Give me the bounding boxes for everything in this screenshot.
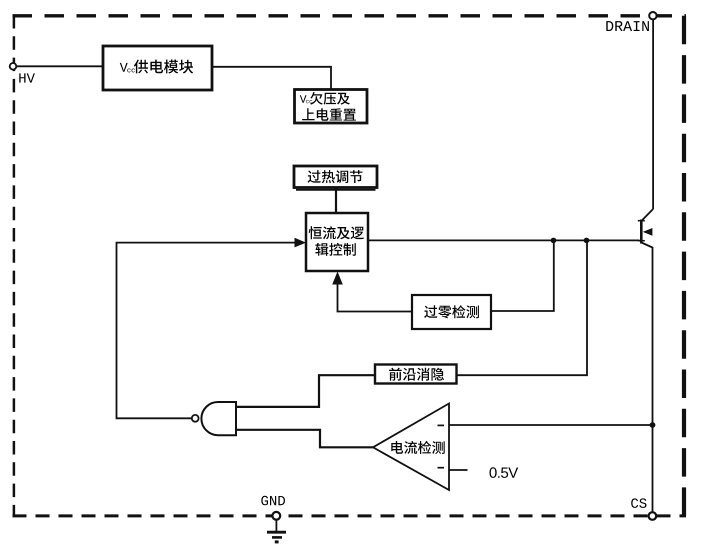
wire DRAIN pin to MOSFET drain bbox=[652, 18, 654, 209]
pin HV (circle on left border) bbox=[10, 63, 17, 70]
comparator reference input minus mark (bottom) bbox=[438, 467, 445, 469]
wire MOSFET source to CS pin bbox=[652, 247, 654, 513]
pin CS (circle on bottom border) bbox=[649, 512, 657, 520]
block U4 constant-current and logic control bbox=[306, 213, 368, 271]
wire logic control output to MOSFET gate bbox=[368, 239, 640, 241]
wire Vcc supply block to UVLO block bbox=[212, 67, 331, 90]
wire 0.5V reference stub to comparator input bbox=[449, 469, 468, 471]
comparator U7 current detection (left-pointing triangle) bbox=[373, 404, 449, 491]
block U5 zero-crossing detection bbox=[412, 295, 491, 329]
wire CS node to comparator non-inverting input bbox=[449, 424, 653, 426]
chip boundary right dashed border bbox=[682, 16, 686, 516]
wire zero-cross detect output to logic control bottom input bbox=[338, 283, 413, 312]
wire drain node to zero-cross detect input bbox=[491, 240, 554, 311]
wire current-sense comparator output to NAND bottom input bbox=[236, 430, 373, 448]
chip boundary bottom dashed border bbox=[13, 514, 687, 517]
arrowhead into logic control bottom input bbox=[332, 272, 343, 285]
comparator inverting input minus mark (top) bbox=[438, 424, 445, 426]
ground symbol below GND pin bbox=[267, 520, 286, 544]
wire leading-edge-blanking output to NAND top input bbox=[236, 375, 375, 407]
pin DRAIN (circle on top border) bbox=[649, 12, 656, 19]
wire drain node to leading-edge-blanking input bbox=[457, 240, 588, 375]
power MOSFET Q1 bbox=[638, 209, 653, 248]
block U3 thermal regulation bbox=[294, 166, 377, 188]
junction dot CS wire / comparator input bbox=[650, 422, 656, 428]
block U2 Vcc UVLO and power-on reset bbox=[295, 90, 368, 124]
wire thermal block to logic control block bbox=[335, 188, 337, 213]
junction dot drain-node / zero-cross tap bbox=[551, 238, 557, 244]
wire HV pin to Vcc supply block bbox=[15, 65, 103, 67]
wire NAND output to logic control input bbox=[117, 243, 298, 419]
chip boundary top dashed border bbox=[13, 14, 687, 17]
junction dot drain-node / LEB tap bbox=[584, 238, 590, 244]
pin GND (circle on bottom border) bbox=[272, 512, 280, 520]
NAND gate G1 (left-facing AND body) bbox=[201, 402, 236, 435]
chip boundary left dashed border bbox=[13, 15, 16, 516]
block U6 leading-edge blanking bbox=[375, 365, 457, 384]
value label 0.5V reference bbox=[490, 467, 519, 478]
arrowhead into logic control left input bbox=[295, 238, 307, 248]
block U1 Vcc supply module bbox=[103, 46, 212, 90]
NAND gate G1 output inversion bubble bbox=[192, 415, 199, 422]
